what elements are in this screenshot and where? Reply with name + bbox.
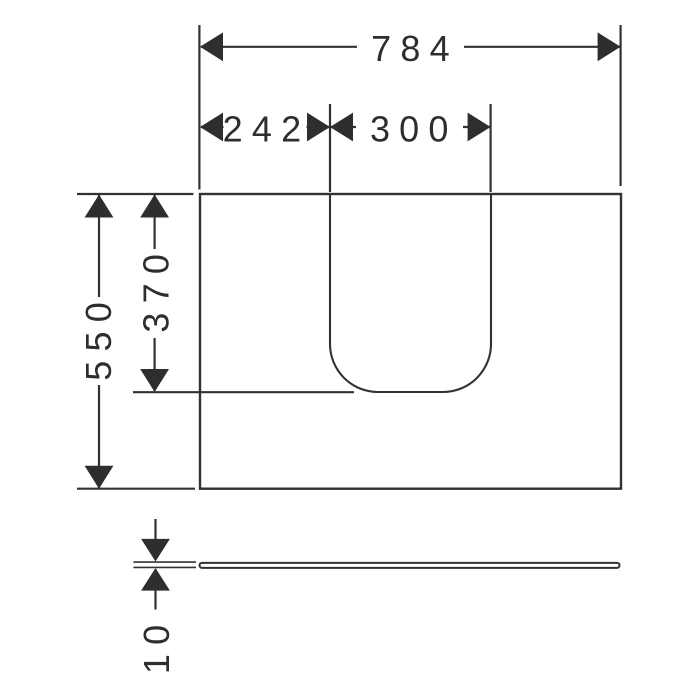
extension line cutout-right (x=490.6)	[490, 104, 492, 192]
extension line slab bottom	[134, 566, 197, 568]
white gap for 242 label	[224, 119, 307, 135]
white gap for 370 label	[147, 249, 163, 338]
dimension 10 upper leader line	[154, 519, 156, 540]
svg-text:300: 300	[370, 108, 458, 149]
dimension line 370	[154, 195, 156, 391]
svg-text:242: 242	[223, 108, 311, 149]
extension line bottom-left (y=488.7)	[77, 488, 195, 490]
U-shaped basin cutout	[330, 194, 491, 392]
extension line slab top	[134, 561, 197, 563]
dimension 10 lower leader line	[154, 590, 156, 610]
white gap for 550 label	[91, 297, 107, 385]
arrowhead 300 left (butterfly right half)	[330, 113, 353, 142]
console plate side profile (10mm slab)	[200, 563, 620, 568]
extension line cutout-left (x=330)	[329, 104, 331, 192]
arrowhead 10 bottom (pointing up)	[141, 568, 170, 591]
svg-text:550: 550	[78, 293, 119, 381]
arrowhead 370 top	[140, 195, 169, 218]
dimension line 242	[201, 126, 330, 128]
arrowhead 784 left	[200, 32, 223, 61]
extension line right (x=620.6)	[619, 25, 621, 186]
svg-text:370: 370	[136, 245, 177, 333]
svg-text:10: 10	[136, 616, 177, 674]
arrowhead 242 right (butterfly left half)	[307, 113, 330, 142]
arrowhead 242 left	[200, 113, 223, 142]
arrowhead 784 right	[598, 32, 621, 61]
outer rectangle of console plate (top view)	[200, 194, 621, 489]
white gap for 300 label	[356, 119, 463, 135]
arrowhead 10 top (pointing down)	[141, 539, 170, 562]
svg-text:784: 784	[371, 28, 459, 69]
arrowhead 550 bottom	[85, 466, 114, 489]
arrowhead 550 top	[85, 195, 114, 218]
white gap for 784 label	[357, 38, 464, 56]
extension line 370 bottom (y=392.2)	[133, 391, 354, 393]
arrowhead 300 right	[468, 113, 491, 142]
arrowhead 370 bottom	[140, 369, 169, 392]
extension line left (x=199.4)	[198, 25, 200, 190]
extension line top-left (y=194)	[77, 193, 193, 195]
dimension line 784	[201, 46, 620, 48]
dimension line 550	[98, 195, 100, 488]
dimension line 300	[330, 126, 490, 128]
